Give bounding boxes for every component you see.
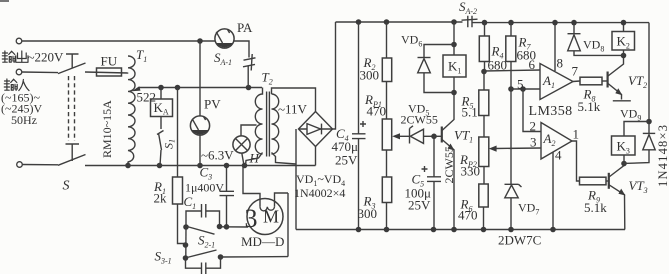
motor MD-D: [243, 166, 288, 235]
node K1 bottom: [451, 90, 457, 96]
svg-text:LM358: LM358: [529, 104, 573, 119]
svg-text:~6.3V: ~6.3V: [201, 148, 234, 163]
svg-text:25V: 25V: [408, 198, 431, 213]
wire RP1 to R3: [386, 150, 388, 177]
zener diode VD7: [505, 184, 522, 229]
node K1 top rail: [451, 19, 457, 25]
svg-text:50Hz: 50Hz: [11, 113, 37, 127]
node S3-1 contact: [218, 254, 224, 260]
op-amp A1: [540, 64, 573, 100]
node R2 top: [384, 19, 390, 25]
node S2-1 contact: [217, 224, 223, 230]
tap 522 arrow on T1: [136, 88, 140, 90]
resistor R6: [479, 184, 488, 207]
wire R2 top lead: [386, 22, 388, 58]
svg-text:3: 3: [530, 135, 537, 150]
transformer T2 primary winding: [255, 88, 262, 155]
wire PV vertical upper: [199, 41, 201, 116]
wire C3 bottom lead: [226, 196, 228, 227]
svg-text:5.1k: 5.1k: [584, 200, 607, 215]
wire K3 bottom lead: [623, 155, 625, 164]
plus sign C5: [422, 166, 428, 172]
wire RP1 wiper to VD5: [399, 135, 410, 137]
switch S pole 1 T marker: [66, 54, 79, 69]
resistor R3: [382, 177, 391, 203]
terminal top-left output: [16, 38, 22, 44]
wire C1 right lead: [206, 211, 220, 227]
node pin5 pin2 bridge: [520, 86, 526, 92]
ammeter PA: [215, 29, 234, 48]
label 输出~220V: [2, 50, 64, 65]
node R1 branch: [175, 85, 181, 91]
transformer T1 winding: [128, 56, 135, 162]
svg-text:PV: PV: [204, 97, 221, 112]
plus sign C4: [360, 121, 366, 127]
node C3 bottom on motor wire: [224, 224, 230, 230]
diode VD8: [568, 23, 624, 56]
svg-text:5: 5: [517, 77, 524, 92]
common wire 6.3V: [85, 165, 316, 167]
svg-text:1μ400V: 1μ400V: [185, 181, 224, 195]
wire cap left lead: [186, 258, 202, 268]
wire R8 to VT2 base: [602, 80, 608, 82]
bridge inner diode: [299, 124, 333, 135]
switch S2-1 blade: [187, 227, 215, 235]
wire pin4 to bottom rail: [552, 152, 554, 230]
node KA branch: [158, 85, 164, 91]
wire input lower to switch: [22, 164, 58, 166]
wiper arrow RP1: [392, 133, 400, 139]
relay coil K1 box: [443, 55, 466, 77]
resistor R1: [173, 177, 183, 204]
node VD5 VT1 base: [431, 134, 437, 140]
wire K2 leads: [623, 23, 625, 56]
potentiometer RP1: [382, 119, 391, 150]
switch S pole 2 blade: [58, 155, 86, 166]
wire lamp bottom lead: [242, 153, 244, 166]
wire RP2 to R6: [483, 167, 485, 185]
node PV on common wire: [197, 163, 203, 169]
node VD7 bottom: [508, 227, 514, 233]
capacitor C3 plates: [220, 191, 235, 195]
wire top rail left from terminal to PA: [22, 40, 215, 42]
node R3 bottom: [384, 227, 390, 233]
wire K1 top lead: [453, 22, 455, 45]
svg-text:6: 6: [529, 57, 536, 72]
transistor VT1: [434, 93, 455, 230]
svg-text:8: 8: [557, 56, 564, 71]
wire top rail right corner down: [648, 23, 650, 134]
wire switch to fuse: [85, 72, 128, 73]
bridge rectifier VD1-VD4 diamond: [299, 112, 333, 147]
wire R4 bottom lead: [484, 62, 486, 72]
wire switch column: [185, 227, 187, 258]
node SA-1 bottom: [246, 85, 252, 91]
lamp H: [233, 136, 250, 153]
resistor R9: [580, 177, 607, 185]
op-amp A2: [541, 123, 572, 160]
svg-text:FU: FU: [101, 54, 118, 69]
resistor R5: [479, 90, 489, 116]
node C4 top: [356, 19, 362, 25]
node S3-1 pivot: [183, 255, 189, 261]
svg-text:3: 3: [245, 204, 258, 233]
node S1 bottom: [157, 163, 163, 169]
wire T2 primary bottom lead: [246, 153, 263, 166]
switch S pole 1 blade: [58, 63, 86, 74]
resistor R2: [382, 58, 391, 82]
wire bridge minus stub: [315, 147, 317, 166]
bottom rail: [296, 229, 625, 231]
svg-text:~11V: ~11V: [278, 102, 308, 117]
wire pin8: [554, 23, 556, 71]
node R7 top: [508, 20, 514, 26]
wire A2 out to R9: [572, 141, 580, 181]
corner scan mark: [0, 0, 9, 2]
transformer T2 core: [267, 92, 270, 157]
resistor R8: [580, 77, 602, 85]
wire KA lead: [160, 88, 162, 100]
svg-text:2DW7C: 2DW7C: [498, 233, 541, 248]
wire input upper to switch: [22, 71, 58, 74]
node C4 bottom: [356, 227, 362, 233]
wire T1 bottom lead: [127, 162, 129, 166]
label 输入: [4, 79, 29, 91]
wire R6 bottom lead: [483, 207, 485, 230]
wire cap right lead: [206, 257, 221, 268]
node pin8 top rail: [552, 20, 558, 26]
wire PA right and down: [233, 41, 249, 58]
terminal input lower: [17, 162, 23, 168]
node R4 top: [482, 20, 488, 26]
transformer T2 secondary winding: [272, 94, 279, 154]
relay contact SA-2: [462, 16, 478, 27]
node VT2 collector K2: [621, 53, 627, 59]
terminal input upper: [16, 69, 22, 75]
node T1 bottom on common wire: [125, 163, 131, 169]
svg-text:470: 470: [367, 104, 387, 119]
svg-text:1N4002×4: 1N4002×4: [294, 186, 345, 200]
wire R5 top lead: [483, 72, 485, 91]
wire R9 to VT3 base: [606, 180, 609, 182]
svg-text:S: S: [63, 179, 70, 194]
svg-text:4: 4: [555, 148, 562, 163]
wire lamp top lead: [241, 125, 257, 136]
wire R7 bottom lead: [510, 62, 512, 90]
wire C5 top lead: [433, 136, 435, 176]
wire RP2 wiper to pin3: [496, 147, 542, 150]
wire R4 top lead: [484, 23, 486, 36]
node lamp bottom: [242, 163, 248, 169]
wire pin5 to pin2: [523, 89, 541, 132]
node K2 top rail: [621, 20, 627, 26]
svg-text:1: 1: [573, 127, 580, 142]
fuse FU box: [97, 68, 122, 76]
node VT3 collector: [621, 161, 627, 167]
wire R1 vertical from tap rail: [177, 88, 179, 178]
svg-text:25V: 25V: [335, 153, 358, 168]
top rail: [336, 21, 650, 24]
wire S2-1 to motor: [220, 226, 249, 228]
capacitor C3 top lead: [226, 166, 228, 192]
svg-text:300: 300: [360, 68, 380, 83]
node pin4 bottom: [550, 227, 556, 233]
wire S3-1 to motor right: [221, 256, 289, 258]
svg-text:2: 2: [530, 119, 537, 134]
wire 522 tap rail: [139, 87, 262, 89]
diode VD9: [624, 133, 655, 163]
wire SA-1 lower lead: [247, 66, 249, 88]
node R7 pin5: [508, 86, 514, 92]
svg-text:RM10~15A: RM10~15A: [100, 100, 114, 158]
wire R5 to RP2: [483, 116, 485, 138]
capacitor C1 plates: [202, 204, 206, 218]
wire PV bottom lead: [199, 135, 201, 166]
transistor VT3: [609, 164, 626, 230]
capacitor across S3-1 plates: [202, 263, 206, 274]
wire K3 top lead: [624, 122, 649, 137]
potentiometer RP2: [479, 137, 489, 167]
svg-text:MD—D: MD—D: [241, 234, 284, 249]
node C5 bottom: [431, 227, 437, 233]
zener diode VD5: [410, 126, 435, 144]
wire C5 bottom lead: [433, 181, 435, 229]
wire motor right lead: [287, 193, 289, 257]
svg-text:M: M: [263, 207, 279, 227]
node C3 top: [224, 163, 230, 169]
wire R1 bottom lead: [178, 204, 186, 245]
wire R2 to RP1: [386, 82, 388, 120]
wire T2 secondary top lead to bridge: [272, 88, 316, 112]
switch S1 under KA: [157, 117, 164, 166]
switch S pole 2 T marker: [66, 144, 80, 161]
node S2-1 pivot: [183, 224, 189, 230]
wiper arrow RP2: [489, 146, 497, 152]
wire R3 bottom lead: [386, 203, 388, 230]
switch S3-1 blade: [187, 250, 217, 258]
transistor VT2: [608, 56, 624, 100]
diode VD6: [418, 45, 455, 93]
node R6 bottom: [481, 227, 487, 233]
relay contact SA-1: [243, 54, 256, 71]
svg-text:7: 7: [572, 64, 579, 79]
node K3 VD9 feed: [646, 119, 652, 125]
node R4 R5 junction: [481, 69, 487, 75]
svg-text:PA: PA: [237, 20, 253, 35]
relay coil K2 box: [612, 32, 635, 51]
node VT1 emitter bottom: [451, 227, 457, 233]
wire C1 left lead: [186, 211, 202, 227]
svg-text:470: 470: [458, 208, 478, 223]
svg-text:5.1k: 5.1k: [578, 99, 601, 114]
wire bridge plus to top rail: [333, 22, 336, 129]
svg-text:1N4148×3: 1N4148×3: [656, 124, 669, 187]
node top rail / PV branch: [197, 38, 203, 44]
svg-text:300: 300: [358, 206, 378, 221]
emitter plate VT2: [613, 100, 631, 102]
switch S linkage dashed lines: [69, 76, 75, 141]
svg-text:2CW55: 2CW55: [401, 113, 438, 127]
voltmeter PV: [190, 116, 209, 135]
wire pin5: [511, 88, 540, 90]
svg-text:5.1: 5.1: [462, 105, 478, 120]
wire junction to pin6: [484, 70, 540, 71]
wire T2 secondary bottom lead: [272, 153, 297, 165]
wire bridge AC2 vertical to bottom rail: [295, 129, 297, 230]
svg-text:~220V: ~220V: [28, 50, 65, 65]
wire VD7 column: [510, 89, 512, 184]
svg-text:2k: 2k: [154, 191, 168, 206]
node VD8 top rail: [571, 20, 577, 26]
node R1 joins switch column: [183, 242, 189, 248]
relay coil K3 box: [612, 136, 636, 155]
capacitor C5 plates: [427, 177, 441, 182]
node VD6 top: [451, 42, 457, 48]
wire K1 leads: [453, 45, 455, 93]
capacitor C4: [352, 22, 366, 230]
svg-text:330: 330: [461, 164, 481, 179]
wire R7 top lead: [510, 23, 512, 36]
wire A1 out to R8: [573, 80, 580, 83]
resistor R4: [479, 36, 489, 62]
resistor R7: [506, 36, 516, 62]
relay coil KA box: [151, 99, 173, 117]
